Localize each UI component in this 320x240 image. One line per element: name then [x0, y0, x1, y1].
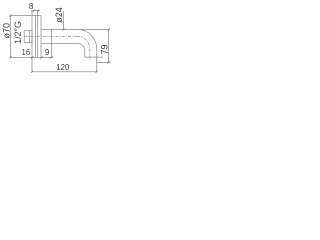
svg-text:79: 79 — [100, 44, 110, 54]
svg-text:1/2″G: 1/2″G — [13, 21, 23, 44]
svg-text:ø24: ø24 — [54, 7, 64, 23]
svg-text:8: 8 — [29, 2, 33, 11]
svg-text:9: 9 — [45, 48, 49, 57]
svg-text:ø70: ø70 — [2, 23, 12, 39]
svg-text:16: 16 — [22, 48, 31, 57]
svg-text:120: 120 — [56, 63, 70, 72]
